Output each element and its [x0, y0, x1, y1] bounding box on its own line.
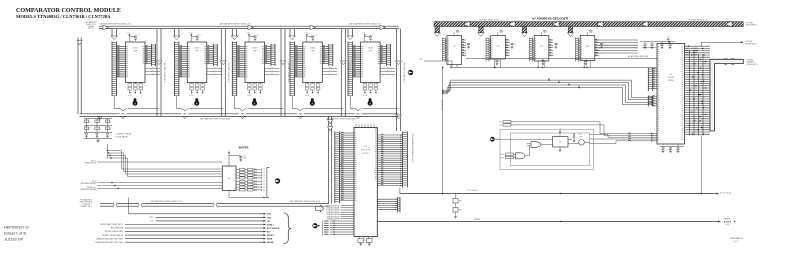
svg-text:RXD: RXD [267, 214, 272, 216]
svg-text:AUX PWR/SW: AUX PWR/SW [111, 227, 124, 230]
bracket [267, 168, 270, 198]
buffer output resistors and diodes [236, 169, 240, 171]
svg-text:SHEETS 2,3,4: SHEETS 2,3,4 [81, 206, 92, 208]
svg-text:(FROM SHT 2): (FROM SHT 2) [85, 163, 97, 165]
svg-text:400MB (FROM LAST UNIT SHT): 400MB (FROM LAST UNIT SHT) [95, 241, 123, 244]
off-page connector C [408, 70, 413, 75]
svg-text:REMOTE: REMOTE [724, 218, 730, 220]
decoder IC U7 [435, 26, 440, 33]
eprom U5 [657, 43, 685, 144]
svg-text:C: C [471, 44, 472, 46]
svg-text:.1UF: .1UF [579, 136, 582, 138]
hollow arrow into labels [316, 205, 324, 212]
off-page connector LB [490, 137, 495, 142]
svg-text:R30: R30 [459, 201, 462, 203]
svg-text:CMP: CMP [369, 50, 373, 52]
feed ladder A0-A3 [647, 68, 649, 91]
svg-text:UNIT BATT SUPPLY BUS: UNIT BATT SUPPLY BUS [347, 62, 350, 84]
svg-text:R: R [110, 128, 111, 130]
svg-text:R: R [110, 121, 111, 123]
wire: addr sel common [424, 60, 452, 62]
decoder IC U8 [479, 26, 484, 33]
off-page connector A [275, 178, 280, 183]
flip-flop U3 [553, 137, 569, 148]
svg-text:40MB (FROM LAST UNIT SHT): 40MB (FROM LAST UNIT SHT) [96, 237, 123, 240]
svg-text:UNIT BATT SUPPLY BUS: UNIT BATT SUPPLY BUS [227, 62, 230, 84]
svg-text:A TO D: A TO D [724, 221, 732, 224]
comparator block U3 [231, 29, 233, 36]
svg-text:27C128: 27C128 [668, 77, 674, 79]
svg-text:17: 17 [263, 178, 265, 180]
decoder IC U9 [522, 26, 527, 33]
svg-text:RESET: RESET [267, 235, 275, 237]
svg-text:C: C [654, 44, 655, 46]
buffer IC U6 [222, 166, 236, 191]
svg-text:R20: R20 [499, 122, 502, 124]
bus: unit battery supply top [99, 25, 399, 27]
bus: left vertical feed [77, 38, 79, 114]
svg-text:FLEX ROM: FLEX ROM [361, 150, 371, 152]
comparator block U5 [347, 29, 349, 36]
svg-text:DIODE MATRIX: DIODE MATRIX [116, 135, 130, 138]
svg-text:P TO D (8-9): P TO D (8-9) [467, 190, 478, 192]
svg-text:2 of 2: 2 of 2 [733, 241, 738, 243]
svg-text:UNIT BATT SUPPLY BUS: UNIT BATT SUPPLY BUS [287, 62, 290, 84]
svg-text:CMP: CMP [133, 50, 137, 52]
comparator block U2 [174, 29, 176, 36]
svg-text:CMP: CMP [311, 50, 315, 52]
svg-text:UNIT BATTERY SUPPLY BUS (8-9): UNIT BATTERY SUPPLY BUS (8-9) [290, 200, 321, 203]
and gate U4A [531, 142, 541, 148]
svg-text:R: R [100, 121, 101, 123]
svg-text:UNIT BATT SUPPLY BUS: UNIT BATT SUPPLY BUS [163, 62, 166, 84]
svg-text:C: C [588, 61, 589, 63]
svg-text:R: R [89, 128, 90, 130]
svg-text:C .1: C .1 [314, 35, 317, 37]
svg-text:Y1: Y1 [364, 241, 366, 243]
decoder IC U10 [568, 26, 573, 33]
svg-text:(FROM SHT 2): (FROM SHT 2) [746, 43, 758, 45]
U5 left pin stubs [653, 68, 657, 70]
resistor network R1-R6 with diodes [84, 118, 112, 120]
buffer power + cap C15 [228, 155, 230, 167]
cpu top pins [355, 124, 357, 127]
control circuit box [500, 129, 594, 169]
bus: unit battery supply bottom [80, 113, 399, 115]
svg-text:JLS192-OP: JLS192-OP [4, 238, 24, 242]
connector rows U5 to bus [685, 45, 711, 47]
bus: opt sel data (outline L-bus) [710, 59, 743, 131]
svg-text:DATA 1: DATA 1 [267, 223, 275, 226]
svg-text:UNIT BATTERY SUPPLY BUS (8-9): UNIT BATTERY SUPPLY BUS (8-9) [200, 118, 231, 121]
svg-text:R21: R21 [499, 125, 502, 127]
svg-text:C: C [672, 44, 673, 46]
svg-text:40MB: 40MB [267, 238, 273, 241]
wire: P TO D [400, 193, 717, 195]
wire: connector to P TO D [700, 136, 702, 194]
svg-text:R R R: R R R [190, 95, 194, 97]
svg-text:19: 19 [263, 172, 265, 174]
svg-text:RESET (FROM LINE IN): RESET (FROM LINE IN) [102, 235, 123, 237]
svg-text:CPU ADDRESS DATA BUS (8-9): CPU ADDRESS DATA BUS (8-9) [411, 133, 414, 163]
svg-text:13: 13 [263, 190, 265, 192]
svg-text:C: C [547, 31, 548, 33]
connector rail pairs [689, 50, 691, 136]
svg-text:(37C65): (37C65) [362, 153, 369, 155]
svg-text:C: C [664, 44, 665, 46]
svg-text:EPROM: EPROM [668, 80, 675, 82]
svg-text:R R R: R R R [248, 95, 252, 97]
svg-text:R R R: R R R [128, 95, 132, 97]
svg-text:CMP: CMP [253, 50, 257, 52]
svg-text:(FROM LAST UNIT) SHT 5: (FROM LAST UNIT) SHT 5 [100, 223, 123, 226]
resistor pulldowns on reset [455, 194, 457, 199]
svg-text:R31: R31 [459, 210, 462, 212]
svg-text:UNIT BATTERY SUPPLY BUS (2-17): UNIT BATTERY SUPPLY BUS (2-17) [349, 23, 381, 26]
wire: +5V rail under decoders [466, 58, 657, 60]
bus: hot aux hatched [434, 22, 743, 27]
caps cluster right [595, 39, 638, 41]
svg-text:UNIT BATTERY SUPPLY BUS (2-17): UNIT BATTERY SUPPLY BUS (2-17) [219, 23, 251, 26]
svg-text:LB: LB [267, 221, 270, 223]
caps under U5 [660, 146, 685, 148]
svg-text:HOT AUX SW B+ (2-17): HOT AUX SW B+ (2-17) [688, 18, 708, 21]
cpu lower right pins [377, 198, 397, 200]
svg-text:18: 18 [263, 175, 265, 177]
svg-text:(FROM SHT 2): (FROM SHT 2) [747, 64, 759, 66]
wire bundle from network to buffer [107, 144, 109, 158]
off-page connector B [312, 223, 317, 228]
svg-text:U3: U3 [559, 142, 561, 144]
svg-text:U9: U9 [540, 46, 542, 48]
svg-text:UNIT BATTERY SUPPLY BUS (2-17): UNIT BATTERY SUPPLY BUS (2-17) [99, 23, 131, 26]
svg-text:C: C [460, 31, 461, 33]
decoupling caps on rail [496, 59, 498, 61]
cpu left lower labels [341, 205, 354, 207]
svg-text:C .1: C .1 [257, 35, 260, 37]
bus: vertical battery to cpu [328, 116, 330, 203]
wire bundle A0-A3 [450, 79, 631, 81]
bus: hot battery feed (broken) [100, 203, 113, 205]
svg-text:R: R [89, 121, 90, 123]
svg-text:C10: C10 [579, 134, 582, 136]
svg-text:C: C [503, 31, 504, 33]
svg-text:C: C [647, 44, 648, 46]
svg-text:A4 PROFILE: A4 PROFILE [441, 100, 444, 111]
svg-text:C: C [545, 61, 546, 63]
svg-text:16: 16 [263, 181, 265, 183]
svg-text:R: R [100, 128, 101, 130]
svg-text:HEPD99107-O: HEPD99107-O [4, 226, 29, 230]
svg-text:.1UF: .1UF [243, 158, 246, 160]
svg-text:+5V: +5V [559, 128, 562, 130]
cap C10 [568, 139, 572, 141]
connector top label rows [686, 47, 689, 49]
svg-text:BUFFER: BUFFER [239, 146, 249, 149]
svg-text:(FROM LINE IN SHT): (FROM LINE IN SHT) [105, 231, 124, 233]
decoupling caps between decoders [467, 43, 470, 45]
svg-text:R R R: R R R [305, 95, 309, 97]
svg-text:(FROM SHT 2): (FROM SHT 2) [746, 25, 758, 27]
svg-text:C: C [558, 44, 559, 46]
svg-text:CONTROL FLAT AT: CONTROL FLAT AT [116, 133, 133, 136]
svg-text:C15: C15 [243, 155, 246, 157]
gate U4B [516, 153, 526, 159]
svg-text:RESET: RESET [474, 219, 481, 221]
svg-text:UNIT BATT SUPPLY BUS: UNIT BATT SUPPLY BUS [402, 62, 405, 84]
svg-text:C .1: C .1 [137, 35, 140, 37]
svg-text:HOT AUX SW B+ (2-17): HOT AUX SW B+ (2-17) [479, 18, 499, 21]
svg-text:C .1: C .1 [372, 35, 375, 37]
svg-text:TXD: TXD [267, 217, 272, 219]
svg-text:UNIT BATTERY SUPPLY BUS (2-17): UNIT BATTERY SUPPLY BUS (2-17) [150, 200, 182, 203]
svg-text:C: C [514, 44, 515, 46]
wire: ladder to P TO D [399, 188, 401, 194]
svg-text:U10: U10 [586, 46, 589, 48]
svg-text:SHT 2): SHT 2) [88, 28, 94, 30]
svg-text:(FROM ANT RELAY): (FROM ANT RELAY) [80, 188, 96, 191]
svg-text:(Sheet 1 of 9): (Sheet 1 of 9) [4, 232, 26, 236]
wire: buffer ground return [228, 191, 230, 198]
ladder left of U2 [334, 132, 336, 204]
wire: RESET [377, 221, 718, 223]
svg-text:15: 15 [263, 184, 265, 186]
svg-text:AD PWR/SW: AD PWR/SW [267, 227, 279, 230]
svg-text:CMP: CMP [195, 50, 199, 52]
svg-text:20: 20 [263, 169, 265, 171]
svg-text:C .1: C .1 [199, 35, 202, 37]
svg-text:U8: U8 [497, 46, 499, 48]
svg-text:C: C [499, 61, 500, 63]
svg-text:MODELS TTN4093G / CLN7361B / C: MODELS TTN4093G / CLN7361B / CLN7728A [16, 14, 111, 19]
comparator block U1 [111, 29, 113, 36]
signal list wires [128, 197, 130, 213]
svg-text:(FROM ANT RELAY): (FROM ANT RELAY) [80, 182, 96, 185]
comparator block U4 [289, 29, 291, 36]
svg-text:E TO D (8-9): E TO D (8-9) [720, 193, 731, 195]
wire: vertical A4 [442, 68, 444, 194]
brace [284, 213, 292, 244]
svg-text:C: C [593, 31, 594, 33]
wire: OPT SEL 1 [701, 41, 741, 43]
per-block return loops [113, 96, 115, 109]
svg-text:400MB: 400MB [267, 241, 274, 244]
cpu right pins to address ladder [377, 134, 402, 136]
transistor Q1 [579, 140, 585, 146]
svg-text:U7: U7 [453, 46, 455, 48]
svg-text:(8-9): (8-9) [726, 224, 730, 226]
crystal circuit under U2 [359, 237, 361, 239]
wires out of box to U5 [514, 121, 600, 123]
svg-text:A7 ADDR SEL BUS (8-9): A7 ADDR SEL BUS (8-9) [628, 55, 648, 58]
svg-text:14: 14 [263, 187, 265, 189]
svg-text:R R R: R R R [363, 95, 367, 97]
cpu U2 [354, 128, 377, 237]
svg-text:A7 ADDRESS DECODER: A7 ADDRESS DECODER [532, 16, 569, 20]
feed arrow to resistor network [98, 116, 102, 119]
